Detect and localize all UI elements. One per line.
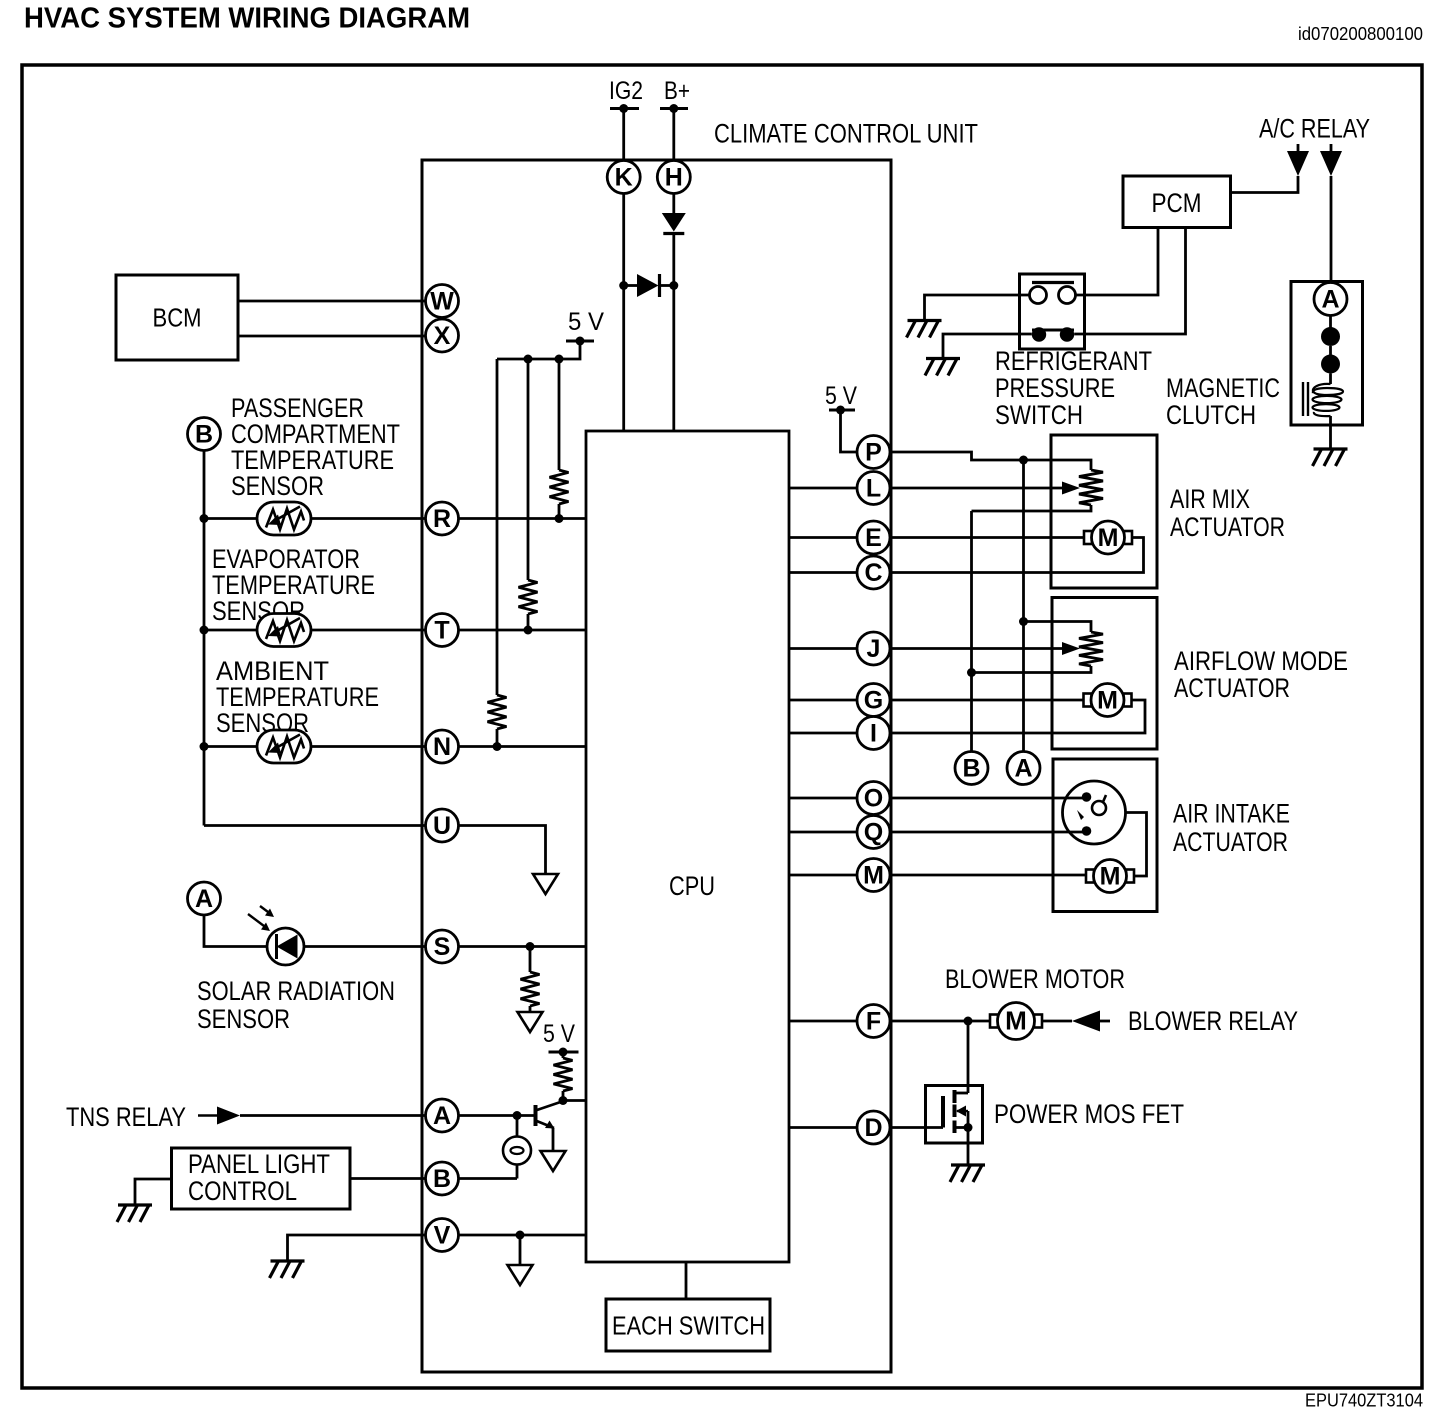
air mix actuator box	[1051, 435, 1157, 588]
wire A to photodiode	[204, 915, 267, 947]
wire 5V tap to connector P	[841, 410, 858, 452]
blower relay feed arrow	[1072, 1011, 1100, 1032]
connector V	[426, 1219, 459, 1252]
connector C	[857, 556, 890, 589]
signal ground emitter	[541, 1151, 566, 1171]
wire BCM to connector W	[238, 300, 426, 303]
svg-text:CLUTCH: CLUTCH	[1166, 400, 1256, 430]
connector S	[426, 930, 459, 963]
connector L	[857, 472, 890, 505]
svg-text:A: A	[1321, 286, 1339, 314]
svg-text:K: K	[615, 164, 633, 192]
wire clutch contact upper	[1329, 316, 1332, 329]
wire B+ to connector H	[672, 109, 675, 161]
wiper arrow air mix	[1062, 482, 1080, 495]
wire blower junction to FET drain	[967, 1021, 970, 1093]
connector W	[426, 285, 459, 318]
connector N	[426, 730, 459, 763]
resistor pull-up T	[519, 580, 538, 614]
svg-text:Q: Q	[864, 819, 883, 847]
wire PCM to AC relay	[1231, 176, 1299, 193]
potentiometer airflow mode	[1079, 632, 1103, 666]
svg-text:BLOWER MOTOR: BLOWER MOTOR	[945, 964, 1125, 994]
svg-text:POWER MOS FET: POWER MOS FET	[994, 1099, 1184, 1129]
svg-text:M: M	[863, 862, 884, 890]
connector F	[857, 1005, 890, 1038]
svg-text:S: S	[434, 933, 451, 961]
svg-text:A: A	[195, 885, 213, 913]
svg-text:A: A	[1014, 755, 1032, 783]
node FET source-body junction	[964, 1123, 973, 1132]
wire V to CPU	[459, 1234, 587, 1237]
wire CPU to connector C	[789, 571, 857, 574]
wire CPU to connector G	[789, 699, 857, 702]
wire coil to ground	[1329, 416, 1332, 449]
wire thermistor to connector R	[311, 517, 426, 520]
clutch contact upper	[1321, 327, 1340, 346]
svg-text:W: W	[430, 288, 454, 316]
5V power tap transistor	[549, 1051, 579, 1054]
node resistor-R junction	[555, 514, 564, 523]
svg-text:CPU: CPU	[669, 871, 715, 901]
each switch box	[606, 1299, 770, 1351]
svg-text:U: U	[433, 812, 451, 840]
wire intake switch to motor	[1126, 813, 1147, 877]
air intake actuator box	[1053, 759, 1157, 912]
wiper arrow airflow	[1062, 642, 1080, 655]
connector H	[657, 161, 690, 194]
thermistor ambient	[257, 730, 311, 763]
svg-text:X: X	[434, 322, 451, 350]
connector P	[857, 436, 890, 469]
svg-text:H: H	[665, 164, 683, 192]
IG2 power tap	[610, 107, 639, 110]
lamp panel light	[503, 1137, 531, 1165]
wire airflow potentiometer to B junction	[972, 666, 1092, 673]
wire H to diode D1	[672, 194, 675, 214]
wire resistor to ground	[529, 1006, 532, 1012]
A/C relay arrow right	[1330, 144, 1333, 151]
wire N to CPU	[459, 745, 587, 748]
wire resistor to T line	[527, 614, 530, 630]
ground magnetic clutch	[1313, 449, 1348, 466]
wire blower motor to relay arrow	[1042, 1020, 1073, 1023]
wire CPU to connector Q	[789, 831, 857, 834]
svg-text:B: B	[195, 421, 213, 449]
wire IG2 to connector K	[622, 109, 625, 161]
blower motor	[990, 1003, 1042, 1040]
wire CPU to connector D	[789, 1126, 857, 1129]
svg-text:AIRFLOW MODE: AIRFLOW MODE	[1174, 646, 1348, 676]
wire CPU to each switch	[685, 1262, 688, 1299]
node rail junction T column	[524, 355, 533, 364]
node B-airflow junction	[967, 668, 976, 677]
svg-text:T: T	[434, 617, 449, 645]
B+ power tap	[660, 107, 688, 110]
svg-text:ACTUATOR: ACTUATOR	[1173, 827, 1288, 857]
svg-text:AIR INTAKE: AIR INTAKE	[1173, 799, 1290, 829]
5V power tap P	[829, 409, 855, 412]
node rail junction R column	[555, 355, 564, 364]
refrigerant pressure switch box	[1020, 274, 1085, 349]
wire emitter to ground	[552, 1128, 555, 1151]
svg-text:CLIMATE CONTROL UNIT: CLIMATE CONTROL UNIT	[714, 119, 978, 149]
wire CPU to connector E	[789, 536, 857, 539]
wire resistor to N line	[496, 729, 499, 747]
wire T to CPU	[459, 629, 587, 632]
node resistor-N junction	[493, 742, 502, 751]
wire AC relay to magnetic clutch	[1330, 176, 1333, 282]
potentiometer air mix	[1079, 470, 1103, 505]
ground FET	[950, 1165, 985, 1182]
wire bus to thermistor R	[204, 517, 257, 520]
svg-text:B: B	[433, 1165, 451, 1193]
svg-text:P: P	[865, 439, 882, 467]
wire A junction to airflow potentiometer	[1024, 622, 1092, 633]
connector K	[607, 161, 640, 194]
wire CPU to connector F	[789, 1020, 857, 1023]
svg-text:N: N	[433, 733, 451, 761]
svg-text:ACTUATOR: ACTUATOR	[1170, 512, 1285, 542]
wire P to air mix potentiometer	[890, 452, 1091, 470]
svg-text:M: M	[1098, 524, 1119, 552]
wire CPU to connector I	[789, 732, 857, 735]
svg-text:B: B	[962, 755, 980, 783]
svg-text:PANEL LIGHT: PANEL LIGHT	[188, 1149, 330, 1179]
svg-text:IG2: IG2	[609, 77, 643, 105]
wire I to airflow motor	[890, 700, 1145, 733]
wire B sense vertical	[970, 511, 973, 752]
signal ground S	[518, 1012, 543, 1032]
svg-text:M: M	[1097, 687, 1118, 715]
wire CPU to connector O	[789, 797, 857, 800]
svg-text:D: D	[864, 1114, 882, 1142]
diode D1	[662, 213, 686, 234]
svg-text:O: O	[864, 785, 883, 813]
wire L wiper	[890, 487, 1066, 490]
node K-D2 junction	[619, 281, 628, 290]
rotary switch air intake	[1063, 781, 1126, 844]
wire D1 to CPU	[672, 234, 675, 432]
wire E to air mix motor	[890, 536, 1084, 539]
node S pulldown junction	[526, 942, 535, 951]
wire B to lamp	[459, 1177, 518, 1180]
connector G	[857, 684, 890, 717]
wire C to air mix motor	[890, 538, 1144, 573]
node A-airflow junction	[1019, 617, 1028, 626]
node V ground junction	[516, 1231, 525, 1240]
diode D2	[637, 274, 660, 297]
panel light control box	[172, 1148, 351, 1209]
5V power tap left rail	[566, 340, 594, 343]
wire thermistor to connector T	[311, 629, 426, 632]
node intake switch terminal O	[1082, 792, 1092, 802]
wire 5V tap elbow	[497, 341, 580, 359]
svg-text:EACH SWITCH: EACH SWITCH	[612, 1311, 765, 1341]
ground V left	[270, 1261, 305, 1278]
wire A sense vertical	[1022, 460, 1025, 752]
svg-text:TNS RELAY: TNS RELAY	[66, 1102, 186, 1132]
wire switch to PCM upper	[1076, 228, 1159, 296]
svg-text:5 V: 5 V	[568, 308, 604, 336]
wire tap to resistor	[562, 1052, 565, 1058]
connector I	[857, 717, 890, 750]
connector X	[426, 319, 459, 352]
resistor pull-up N	[488, 695, 507, 729]
svg-text:id070200800100: id070200800100	[1298, 24, 1423, 44]
resistor collector pull-up	[554, 1058, 573, 1091]
wire rail drop N column	[496, 359, 499, 695]
transistor Q1	[536, 1102, 563, 1129]
wire collector node to CPU	[563, 1099, 586, 1102]
PCM box	[1123, 176, 1231, 228]
wire G to airflow motor	[890, 699, 1084, 702]
motor air intake	[1086, 860, 1134, 893]
resistor pull-up R	[550, 470, 569, 504]
node intake switch terminal Q	[1082, 826, 1092, 836]
node blower junction	[964, 1017, 973, 1026]
svg-text:M: M	[1005, 1006, 1027, 1036]
svg-text:V: V	[434, 1222, 451, 1250]
wire D to FET gate	[890, 1126, 943, 1129]
wire S junction to resistor	[529, 947, 532, 973]
BCM box	[116, 275, 238, 360]
svg-text:F: F	[866, 1008, 881, 1036]
wire bus to thermistor N	[204, 745, 257, 748]
ground refrigerant upper	[907, 321, 942, 338]
wire D2 to H line	[660, 284, 674, 287]
connector M	[857, 859, 890, 892]
svg-text:SOLAR RADIATION: SOLAR RADIATION	[197, 976, 395, 1006]
svg-text:A: A	[433, 1102, 451, 1130]
wire clutch contacts	[1329, 346, 1332, 355]
connector Q	[857, 816, 890, 849]
connector A input	[426, 1099, 459, 1132]
svg-text:5 V: 5 V	[543, 1020, 575, 1048]
svg-text:B+: B+	[664, 77, 690, 105]
ground refrigerant lower	[925, 359, 960, 376]
svg-text:PRESSURE: PRESSURE	[995, 373, 1115, 403]
svg-text:BCM: BCM	[153, 303, 202, 333]
inductor clutch coil	[1303, 382, 1343, 416]
power MOS FET box	[926, 1086, 983, 1144]
svg-text:E: E	[865, 524, 882, 552]
node collector junction	[559, 1096, 568, 1105]
node bus-T junction	[200, 626, 209, 635]
connector A sensor feed	[188, 882, 221, 915]
wire CPU to connector J	[789, 647, 857, 650]
wire BCM to connector X	[238, 335, 426, 338]
refrigerant pressure switch contacts	[1030, 283, 1076, 342]
wire TNS relay to connector A	[240, 1114, 426, 1117]
wire V junction to ground	[519, 1235, 522, 1265]
connector T	[426, 614, 459, 647]
svg-text:PCM: PCM	[1152, 188, 1202, 218]
wire ground to connector V	[288, 1235, 426, 1261]
connector B sensor feed	[188, 418, 221, 451]
connector R	[426, 502, 459, 535]
svg-text:REFRIGERANT: REFRIGERANT	[995, 346, 1152, 376]
svg-text:MAGNETIC: MAGNETIC	[1166, 373, 1280, 403]
wire switch to ground left lower	[943, 334, 1032, 359]
wire panel light control to connector B	[350, 1177, 426, 1180]
connector B sense	[955, 752, 988, 785]
clutch contact lower	[1321, 355, 1340, 374]
svg-text:I: I	[870, 720, 877, 748]
wire K line to diode D2	[624, 284, 637, 287]
connector D	[857, 1111, 890, 1144]
connector A sense	[1007, 752, 1040, 785]
wire photodiode to connector S	[304, 945, 426, 948]
wire M to intake motor	[890, 874, 1086, 877]
wire switch to ground left upper	[925, 295, 1030, 321]
wire switch to PCM lower	[1074, 228, 1185, 335]
svg-text:J: J	[867, 635, 881, 663]
svg-text:SWITCH: SWITCH	[995, 400, 1083, 430]
wire Q to intake switch	[890, 831, 1087, 834]
connector O	[857, 782, 890, 815]
resistor S pulldown	[521, 972, 540, 1006]
node bus-N junction	[200, 742, 209, 751]
wire contact to coil	[1329, 374, 1332, 385]
connector B input	[426, 1162, 459, 1195]
svg-text:M: M	[1100, 863, 1121, 891]
wire F to blower motor	[890, 1020, 997, 1023]
CPU box U1	[586, 431, 789, 1262]
wire resistor to R line	[558, 504, 561, 519]
motor air mix	[1084, 521, 1132, 554]
connector J	[857, 632, 890, 665]
signal ground V	[508, 1265, 533, 1285]
svg-text:ACTUATOR: ACTUATOR	[1174, 673, 1290, 703]
wire A junction to lamp	[516, 1116, 519, 1137]
wire CPU to connector M	[789, 874, 857, 877]
node bus-R junction	[200, 514, 209, 523]
svg-text:HVAC SYSTEM WIRING DIAGRAM: HVAC SYSTEM WIRING DIAGRAM	[24, 3, 470, 35]
wire CPU to connector L	[789, 487, 857, 490]
wire K to CPU	[622, 194, 625, 432]
svg-text:G: G	[864, 687, 883, 715]
svg-text:AIR MIX: AIR MIX	[1170, 484, 1250, 514]
node A-lamp junction	[513, 1111, 522, 1120]
thermistor passenger compartment	[257, 502, 311, 535]
wire sensor bus vertical	[203, 451, 206, 826]
wire rail drop R column	[558, 359, 561, 470]
svg-text:A/C RELAY: A/C RELAY	[1259, 114, 1370, 144]
climate control unit box	[422, 160, 891, 1372]
node H-D2 junction	[669, 281, 678, 290]
node P-A junction	[1019, 456, 1028, 465]
wire O to intake switch	[890, 797, 1087, 800]
wire rail drop T column	[527, 359, 530, 580]
power MOS FET Q2	[943, 1090, 968, 1133]
svg-text:SENSOR: SENSOR	[231, 471, 324, 501]
svg-text:L: L	[866, 475, 881, 503]
wire thermistor to connector N	[311, 745, 426, 748]
wire R to CPU	[459, 517, 587, 520]
signal ground U	[533, 874, 558, 894]
wire potentiometer to B line	[972, 505, 1092, 511]
connector E	[857, 521, 890, 554]
thermistor evaporator	[257, 614, 311, 647]
ground panel light control	[117, 1205, 152, 1222]
motor airflow mode	[1084, 684, 1132, 717]
connector U	[426, 809, 459, 842]
node resistor-T junction	[524, 626, 533, 635]
solar radiation sensor photodiode	[248, 906, 304, 965]
wire FET source to ground	[967, 1128, 970, 1166]
wire S to CPU	[459, 945, 587, 948]
airflow mode actuator box	[1052, 598, 1157, 750]
svg-text:R: R	[433, 505, 451, 533]
wire lamp to B line	[516, 1165, 519, 1179]
svg-text:BLOWER RELAY: BLOWER RELAY	[1128, 1006, 1298, 1036]
wire panel light control to ground	[135, 1179, 172, 1205]
svg-text:CONTROL: CONTROL	[188, 1176, 297, 1206]
wire bus to thermistor T	[204, 629, 257, 632]
magnetic clutch box	[1291, 282, 1363, 426]
A/C relay arrow left	[1297, 144, 1300, 151]
wire J wiper	[890, 647, 1066, 650]
wire U to ground drop	[459, 826, 546, 875]
wire resistor to collector node	[562, 1091, 565, 1101]
TNS relay feed arrow	[198, 1114, 217, 1117]
wire A to transistor base	[459, 1114, 536, 1117]
svg-text:C: C	[864, 559, 882, 587]
svg-text:EPU740ZT3104: EPU740ZT3104	[1305, 1391, 1423, 1411]
wire bus to connector U	[204, 824, 426, 827]
connector A clutch	[1314, 283, 1347, 316]
svg-text:SENSOR: SENSOR	[197, 1004, 290, 1034]
